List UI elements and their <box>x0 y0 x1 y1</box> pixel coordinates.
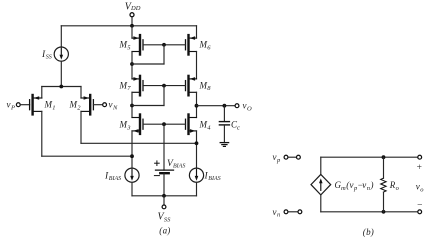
svg-text:M: M <box>199 120 208 130</box>
input terminal vp (model) <box>284 155 300 159</box>
power VDD terminal <box>130 13 134 26</box>
wire diff pair source rail <box>42 86 81 88</box>
svg-text:BIAS: BIAS <box>109 176 121 182</box>
svg-text:N: N <box>112 104 118 111</box>
wire M7 drain down <box>131 92 133 117</box>
wire M5 source from rail <box>131 26 133 38</box>
transistor M6 <box>186 35 197 54</box>
svg-text:): ) <box>166 225 170 235</box>
label M6 <box>199 40 212 52</box>
wire to Cc <box>223 106 225 122</box>
current source ISS <box>54 47 68 61</box>
label M1 <box>44 100 56 112</box>
node bottom rail center <box>162 194 166 198</box>
svg-text:P: P <box>10 104 15 111</box>
label - output <box>417 201 423 211</box>
wire VBIAS to bottom rail <box>163 173 165 196</box>
transistor M8 <box>186 76 197 95</box>
label VDD <box>125 1 141 12</box>
wire row3 gate line <box>143 123 186 125</box>
label M3 <box>119 120 132 132</box>
input terminal vN <box>93 103 106 107</box>
wire M7 diode connection <box>132 86 164 106</box>
svg-text:SS: SS <box>164 217 171 224</box>
svg-text:6: 6 <box>207 44 211 51</box>
label Ro <box>389 180 400 192</box>
wire M6 drain to M8 source <box>196 52 198 79</box>
label VSS <box>158 212 172 224</box>
label vo output <box>416 182 425 194</box>
input terminal vn (model) <box>284 210 302 214</box>
wire top VDD rail <box>61 25 196 27</box>
label Cc <box>231 120 240 132</box>
wire model bottom <box>321 211 418 213</box>
svg-text:1: 1 <box>52 104 55 111</box>
svg-text:5: 5 <box>127 44 131 51</box>
output terminal - <box>418 210 422 214</box>
svg-text:+: + <box>416 163 422 173</box>
battery VBIAS <box>154 161 173 176</box>
wire M3 source down to left IBIAS <box>131 131 133 168</box>
svg-text:v: v <box>243 101 247 111</box>
label M4 <box>199 120 212 132</box>
wire M1 drain to node below M3 <box>42 111 132 156</box>
transistor M3 <box>132 115 143 134</box>
transistor M1 <box>30 95 42 114</box>
wire gates to VBIAS <box>163 124 165 170</box>
svg-text:DD: DD <box>130 5 141 12</box>
svg-text:M: M <box>69 100 78 110</box>
wire VDD rail to ISS <box>60 26 62 47</box>
label ISS <box>41 50 52 61</box>
label vn <box>273 207 281 219</box>
svg-text:BIAS: BIAS <box>173 163 185 169</box>
label + output <box>416 163 422 173</box>
label vN <box>109 100 119 112</box>
label IBIAS right <box>204 172 221 183</box>
node M7 drain <box>130 104 134 108</box>
svg-text:M: M <box>119 120 128 130</box>
wire model top <box>321 156 418 158</box>
svg-text:2: 2 <box>77 104 81 111</box>
svg-text:M: M <box>119 80 128 90</box>
dependent source Gm(vp-vn) <box>311 174 331 195</box>
node Cc tap <box>223 104 227 108</box>
svg-text:3: 3 <box>126 124 131 131</box>
node VDD rail junction <box>130 24 134 28</box>
wire M5 drain down <box>131 52 133 79</box>
svg-text:v: v <box>273 207 277 217</box>
svg-text:M: M <box>119 40 128 50</box>
svg-text:BIAS: BIAS <box>208 176 220 182</box>
svg-text:n: n <box>367 185 370 192</box>
current source IBIAS left <box>125 168 139 182</box>
svg-text:o: o <box>396 185 400 192</box>
transistor M7 <box>132 76 143 95</box>
wire M5 diode connection <box>132 45 164 64</box>
wire ISS to diff pair sources <box>60 61 62 86</box>
label M8 <box>199 80 212 92</box>
wire bottom rail <box>132 195 197 197</box>
wire M4 source down to right IBIAS <box>196 131 198 168</box>
svg-text:7: 7 <box>127 85 131 92</box>
svg-text:8: 8 <box>207 85 211 92</box>
svg-text:4: 4 <box>207 124 211 131</box>
resistor Ro <box>381 178 386 192</box>
node model bottom <box>382 210 386 214</box>
node model top <box>382 155 386 159</box>
wire row1 gate line <box>143 44 186 46</box>
wire output node to vO terminal <box>197 105 235 107</box>
output terminal + <box>418 155 422 159</box>
svg-text:M: M <box>44 100 53 110</box>
node row2 gates <box>162 84 166 88</box>
wire M6 source from rail <box>196 26 198 38</box>
wire left IBIAS to bottom rail <box>131 182 133 196</box>
wire row2 gate line <box>143 85 186 87</box>
node M5 drain <box>130 62 134 66</box>
node row1 gates <box>162 43 166 47</box>
svg-text:): ) <box>370 227 374 237</box>
svg-text:v: v <box>109 100 113 110</box>
capacitor Cc <box>219 122 229 125</box>
wire Ro top <box>383 157 385 178</box>
svg-text:v: v <box>416 182 420 192</box>
power VSS terminal <box>162 196 166 209</box>
caption (b) <box>363 227 374 237</box>
label vP <box>7 100 16 112</box>
label vp <box>273 152 282 164</box>
svg-text:v: v <box>7 100 11 110</box>
label IBIAS left <box>104 172 121 183</box>
svg-text:M: M <box>199 40 208 50</box>
wire Ro bottom <box>383 192 385 212</box>
transistor M2 <box>81 95 93 114</box>
label M2 <box>69 100 82 112</box>
wire model left bottom <box>320 195 322 212</box>
label M5 <box>119 40 132 52</box>
wire M2 source up <box>80 87 82 99</box>
wire model left top <box>320 157 322 174</box>
transistor M5 <box>132 35 143 54</box>
node M2 drain joins <box>195 141 199 145</box>
node M1 drain joins <box>130 154 134 158</box>
svg-text:v: v <box>273 152 277 162</box>
svg-text:M: M <box>199 80 208 90</box>
wire right IBIAS to bottom rail <box>196 182 198 196</box>
label Gm(vp-vn) <box>335 180 374 192</box>
output terminal vO <box>235 104 239 108</box>
svg-text:): ) <box>370 180 374 190</box>
svg-text:−: − <box>417 201 423 211</box>
svg-text:v: v <box>362 180 366 190</box>
wire Cc to ground <box>223 125 225 143</box>
transistor M4 <box>186 115 197 134</box>
wire M1 source up <box>41 87 43 99</box>
wire M8 drain to output node <box>196 92 198 117</box>
svg-text:p: p <box>276 157 281 164</box>
svg-text:v: v <box>350 180 354 190</box>
node diff pair tail <box>59 85 63 89</box>
node row3 gates <box>162 122 166 126</box>
svg-text:c: c <box>237 124 240 131</box>
label VBIAS <box>167 159 185 170</box>
svg-text:n: n <box>277 212 280 219</box>
svg-text:O: O <box>247 105 252 112</box>
svg-text:SS: SS <box>46 54 52 60</box>
label M7 <box>119 80 132 92</box>
node output vO <box>195 104 199 108</box>
svg-text:o: o <box>420 186 424 193</box>
wire M2 drain to M4 source node <box>81 111 197 143</box>
input terminal vP <box>16 103 29 107</box>
current source IBIAS right <box>189 168 203 182</box>
ground <box>220 143 228 147</box>
caption (a) <box>159 225 170 235</box>
label vO <box>243 101 253 113</box>
